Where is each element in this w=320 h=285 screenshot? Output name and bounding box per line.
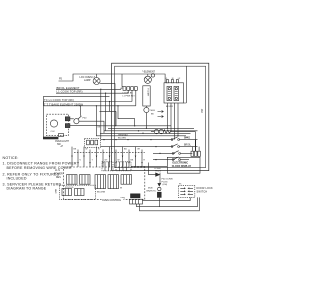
svg-text:GRN: GRN	[56, 188, 58, 193]
wire drop a	[95, 106, 97, 136]
svg-text:PLUG: PLUG	[162, 181, 168, 183]
wire drop b	[100, 89, 102, 138]
wire bus to P38	[122, 74, 123, 87]
wire broil bus	[56, 88, 121, 90]
svg-text:BK: BK	[151, 113, 154, 115]
wire drop e	[118, 106, 135, 126]
plug P4 dashed	[102, 162, 113, 171]
wire pin drop 2	[195, 140, 197, 152]
terminal block labels L1 N L2	[165, 78, 181, 80]
motor oven sensor	[144, 106, 149, 129]
oven light lamp label	[80, 76, 96, 82]
svg-text:BK W R: BK W R	[166, 106, 174, 108]
clock pin box A	[65, 117, 70, 121]
svg-text:MLB: MLB	[148, 188, 153, 190]
svg-text:CLOCK DISPLAY: CLOCK DISPLAY	[172, 165, 192, 168]
svg-text:MLB: MLB	[151, 110, 156, 112]
svg-text:NOTICE:: NOTICE:	[3, 156, 19, 160]
svg-text:V: V	[80, 160, 82, 162]
relay row broil	[101, 144, 198, 148]
svg-text:INCLUDED: INCLUDED	[7, 176, 27, 180]
conn plug label	[154, 168, 161, 173]
wire BK drop	[167, 103, 169, 128]
fuse stack	[157, 177, 161, 207]
svg-text:P37: P37	[201, 108, 204, 113]
wire drop d	[100, 102, 117, 126]
svg-text:DIAGRAM TO RANGE: DIAGRAM TO RANGE	[7, 187, 47, 191]
terminal block	[164, 80, 184, 103]
svg-text:RES: RES	[56, 177, 61, 179]
svg-text:BK-GRN: BK-GRN	[118, 138, 126, 140]
diode P40	[149, 163, 161, 177]
wire P38 riser 3	[131, 90, 133, 101]
svg-text:Y: Y	[111, 149, 113, 151]
svg-text:~P: ~P	[60, 145, 63, 148]
wire W drop	[170, 103, 172, 131]
wire bundle 1	[108, 127, 194, 129]
P40 conn plug label	[162, 178, 173, 186]
svg-text:R: R	[98, 149, 100, 151]
bracket connector	[59, 134, 64, 137]
wire loop 1	[143, 197, 191, 200]
solenoid door latch	[151, 129, 164, 133]
harness wire 2	[77, 150, 79, 168]
svg-text:HI-LIMIT: HI-LIMIT	[146, 89, 148, 98]
clock bottom bar	[43, 137, 58, 140]
harness wire 8	[115, 150, 117, 168]
relay row bake	[101, 137, 198, 141]
door lock plug dashed	[178, 184, 194, 198]
door lock switch label	[197, 187, 214, 193]
electronic clock box	[167, 157, 200, 173]
wire R drop	[174, 103, 176, 140]
svg-text:W: W	[86, 149, 88, 151]
wire clock to switch A	[70, 118, 74, 120]
connector P38 strip	[123, 87, 137, 91]
svg-text:W: W	[120, 188, 123, 190]
wire cooktop RR bus	[56, 92, 128, 94]
oven control dashed box	[64, 167, 145, 200]
clock motor	[50, 120, 57, 133]
MLB label	[147, 188, 156, 193]
node bundle joints	[114, 125, 178, 136]
transformer plug	[130, 199, 143, 204]
control connector P13	[80, 175, 91, 185]
svg-text:TERM BLK: TERM BLK	[118, 135, 129, 137]
wire cooktop RF bus	[44, 101, 133, 103]
svg-text:GY: GY	[105, 160, 109, 162]
svg-text:OVEN LIGHT: OVEN LIGHT	[55, 141, 70, 143]
harness wire 3	[83, 147, 85, 167]
svg-text:BROIL ELEMENT: BROIL ELEMENT	[57, 86, 80, 90]
wire bundle 4	[96, 135, 186, 137]
harness arrows lower	[77, 162, 143, 164]
svg-text:P40: P40	[83, 117, 88, 119]
svg-text:OR: OR	[137, 149, 141, 151]
wire N feed	[184, 66, 187, 103]
wire bundle 0	[100, 125, 171, 127]
wire pin drop 3	[198, 147, 200, 152]
svg-text:L1 PWR RLY: L1 PWR RLY	[123, 95, 136, 97]
harness wire 5	[96, 147, 98, 167]
svg-text:T: T	[92, 160, 94, 162]
relay row 4	[153, 157, 189, 161]
svg-text:PLUG: PLUG	[155, 171, 161, 173]
harness wire 10	[128, 150, 130, 168]
svg-text:BK: BK	[98, 126, 101, 128]
connector plug dashed	[85, 138, 101, 147]
transformer block	[131, 194, 141, 198]
node row1 dots	[103, 139, 128, 140]
svg-text:BAKE: BAKE	[184, 137, 191, 140]
term blk label	[98, 126, 129, 139]
console border inner	[115, 66, 206, 167]
oven control bottom label	[102, 198, 124, 202]
svg-text:L1 COOK TOP (RR): L1 COOK TOP (RR)	[57, 90, 83, 94]
svg-text:L2: L2	[178, 78, 181, 80]
TOD pin box A	[62, 189, 72, 196]
clock pin rects	[191, 151, 200, 156]
dashed boundary line	[74, 152, 145, 154]
svg-text:SWITCH: SWITCH	[197, 190, 208, 193]
resistor latch	[164, 130, 196, 151]
svg-text:ELECTRONIC: ELECTRONIC	[173, 162, 189, 165]
svg-text:P40 CONN: P40 CONN	[162, 178, 173, 180]
TOD pin box B	[75, 189, 85, 196]
wire clock to switch B	[70, 125, 100, 127]
lamp L1 oven light	[93, 74, 115, 126]
control connector P8	[95, 175, 106, 189]
svg-text:W: W	[118, 160, 120, 162]
svg-text:(LM): (LM)	[163, 184, 168, 186]
oven light switch	[74, 106, 104, 134]
svg-text:LAMP: LAMP	[84, 79, 91, 82]
control connector P9	[108, 175, 119, 189]
node row dots	[150, 139, 160, 160]
wire bake bus	[44, 105, 136, 107]
node bus joints	[96, 89, 119, 107]
svg-text:BK: BK	[131, 160, 134, 162]
harness wire labels	[74, 149, 146, 162]
clock pin box B	[65, 124, 70, 128]
svg-text:R: R	[144, 160, 146, 162]
node light sw junction	[80, 105, 81, 106]
lamp console	[144, 74, 154, 84]
svg-text:BK: BK	[74, 149, 77, 151]
svg-text:BK(HOT): BK(HOT)	[147, 191, 156, 193]
svg-text:BK-GRN: BK-GRN	[97, 192, 106, 194]
plug P5 dashed	[116, 162, 131, 171]
control connector P14	[121, 175, 132, 185]
TOD dashed box	[60, 185, 96, 199]
wire loop 3	[140, 197, 200, 210]
oven light sw label	[55, 141, 70, 146]
wire left down to clock	[43, 102, 45, 138]
power label	[54, 170, 63, 179]
svg-text:BEFORE REMOVING WIRE COVER: BEFORE REMOVING WIRE COVER	[7, 166, 72, 170]
wire color labels	[151, 106, 174, 115]
console border outer	[112, 63, 209, 170]
svg-text:P23 TOD: P23 TOD	[65, 187, 74, 189]
svg-text:CLK: CLK	[51, 131, 56, 133]
svg-text:TC L1 COOK TOP (RF): TC L1 COOK TOP (RF)	[44, 98, 74, 102]
connector P38 labels	[123, 93, 136, 98]
harness wire 11	[135, 147, 137, 167]
harness wire 7	[109, 147, 111, 167]
svg-text:OVEN CONTROL: OVEN CONTROL	[102, 199, 122, 202]
svg-text:BU: BU	[124, 149, 127, 151]
relay row 3	[153, 151, 192, 155]
harness wire 6	[102, 150, 104, 168]
harness wire 9	[122, 147, 124, 167]
svg-text:BROIL: BROIL	[184, 145, 192, 147]
wire pin drop 1	[191, 147, 193, 152]
harness arrows upper	[71, 156, 136, 158]
harness wire 12	[141, 150, 143, 168]
wire BU drop	[177, 103, 179, 136]
notice text	[3, 156, 77, 191]
harness wire 4	[89, 150, 91, 168]
wire bundle 3	[100, 132, 191, 134]
wire drop c	[105, 93, 107, 131]
svg-text:LT DBL BK: LT DBL BK	[123, 93, 134, 95]
clock dashed box	[47, 114, 69, 135]
harness wire 1	[71, 147, 73, 167]
arrow marker A	[158, 111, 164, 113]
control connector P12	[67, 175, 78, 185]
wire P38 riser 2	[127, 90, 129, 93]
wire to clock display	[131, 165, 167, 167]
arrow marker B	[158, 116, 164, 118]
wire bundle 2	[104, 130, 198, 132]
svg-text:P5: P5	[59, 78, 63, 81]
svg-text:T T T BAKE ELEMENT 2585W: T T T BAKE ELEMENT 2585W	[44, 102, 84, 106]
hi-limit box	[143, 86, 150, 106]
wire P38 riser 1	[121, 88, 123, 89]
wire L1 top bus	[59, 74, 166, 83]
wire loop 2	[137, 197, 198, 206]
svg-text:*-ELEMENT: *-ELEMENT	[142, 70, 156, 73]
wire P38 riser 4	[135, 90, 137, 106]
label box top edge	[44, 96, 110, 106]
svg-text:CONN: CONN	[154, 168, 161, 170]
